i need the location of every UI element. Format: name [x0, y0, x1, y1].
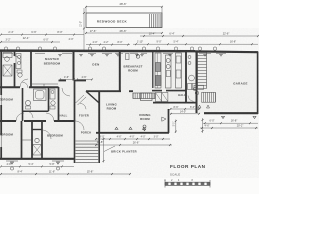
foyer closet marks	[76, 95, 85, 103]
window tags top	[4, 47, 7, 50]
master bath wall A	[14, 51, 16, 56]
living room left wall	[98, 92, 100, 134]
porch right rail / foyer right	[98, 133, 100, 163]
bedroom1 closet wall	[21, 121, 23, 159]
kitchen center counter	[166, 55, 172, 88]
kitchen bottom / hall top wall	[86, 90, 121, 92]
master bath wall B	[30, 51, 32, 87]
bottom wall bedrooms	[0, 158, 75, 160]
hall-foyer door arc	[80, 103, 86, 109]
garage bottom wall	[204, 112, 258, 114]
stoop side triangle	[162, 117, 166, 121]
lower bath2 fixtures	[50, 89, 55, 99]
bath shower	[33, 145, 42, 156]
lower bath walls	[22, 88, 24, 121]
svg-text:12'-0": 12'-0"	[80, 21, 83, 27]
svg-text:28'-6": 28'-6"	[119, 2, 126, 6]
bath right wall	[41, 121, 43, 159]
window triangles below top wall	[59, 54, 62, 56]
closet shelf line	[22, 139, 33, 141]
kitchen right wall	[185, 51, 187, 103]
hall closet boxes	[156, 93, 162, 102]
master bedroom door arc	[20, 79, 28, 87]
porch right vertical dim	[103, 138, 105, 163]
master bath fixtures	[3, 53, 12, 58]
stoop right wall	[168, 109, 170, 133]
entry steps hatch	[201, 92, 203, 102]
window sills bottom wall	[6, 160, 18, 162]
kitchen right counter	[176, 53, 182, 88]
utility fixtures	[188, 56, 191, 59]
hall door arcs	[26, 111, 33, 118]
bath top wall	[32, 129, 42, 131]
dining window tag	[143, 125, 146, 128]
foyer diagonal wall	[86, 91, 99, 103]
living dining bottom wall	[96, 132, 169, 134]
den bottom wall segs	[59, 80, 67, 82]
garage top wall	[195, 50, 258, 53]
fireplace	[132, 93, 134, 99]
foyer door arc	[75, 121, 84, 130]
porch steps	[76, 140, 99, 142]
tub	[34, 89, 47, 101]
garage entry marks	[193, 87, 197, 91]
bedroom2 door arc	[42, 130, 51, 139]
bath toilet	[35, 138, 39, 142]
master bedroom right wall	[73, 51, 75, 81]
bedroom bottom window triangles	[11, 162, 14, 164]
house top wall	[0, 49, 195, 52]
toilet lower bath	[25, 100, 30, 105]
scale bar	[165, 181, 210, 183]
plan interior tint	[0, 51, 258, 160]
foyer left wall	[74, 81, 76, 122]
left edge wall	[0, 51, 2, 95]
stoop vertical dim	[175, 120, 177, 134]
window sills top wall	[3, 52, 13, 54]
living bottom window triangles	[115, 127, 118, 129]
hall door arc to garage	[188, 96, 194, 102]
garage left wall	[196, 51, 198, 113]
deck stairs hatch	[150, 14, 161, 28]
breakfast window tag	[136, 55, 139, 58]
den right / breakfast left wall	[119, 51, 121, 92]
closet lines master	[32, 83, 58, 85]
bedroom hall wall	[0, 120, 16, 122]
master bath2 fixtures	[16, 54, 21, 69]
redwood deck outline	[86, 13, 162, 28]
kitchen fridge block	[155, 76, 161, 86]
hall left wall	[58, 87, 60, 121]
kitchen sink bowls	[166, 59, 170, 63]
garage right wall	[257, 52, 259, 115]
porch left rail	[74, 121, 76, 163]
bath left wall	[31, 121, 33, 159]
svg-text:REDWOOD DECK: REDWOOD DECK	[97, 20, 128, 24]
hall bottom wall	[153, 102, 196, 104]
breakfast/kitchen divider	[152, 52, 154, 89]
garage bottom window triangles	[222, 116, 225, 118]
stairs to basement	[198, 52, 207, 54]
master bedroom bottom wall	[0, 86, 20, 88]
deck left vertical dim	[83, 8, 85, 50]
kitchen oven block	[156, 63, 161, 72]
kitchen left counter	[155, 53, 161, 88]
garage vert dim	[202, 118, 204, 133]
